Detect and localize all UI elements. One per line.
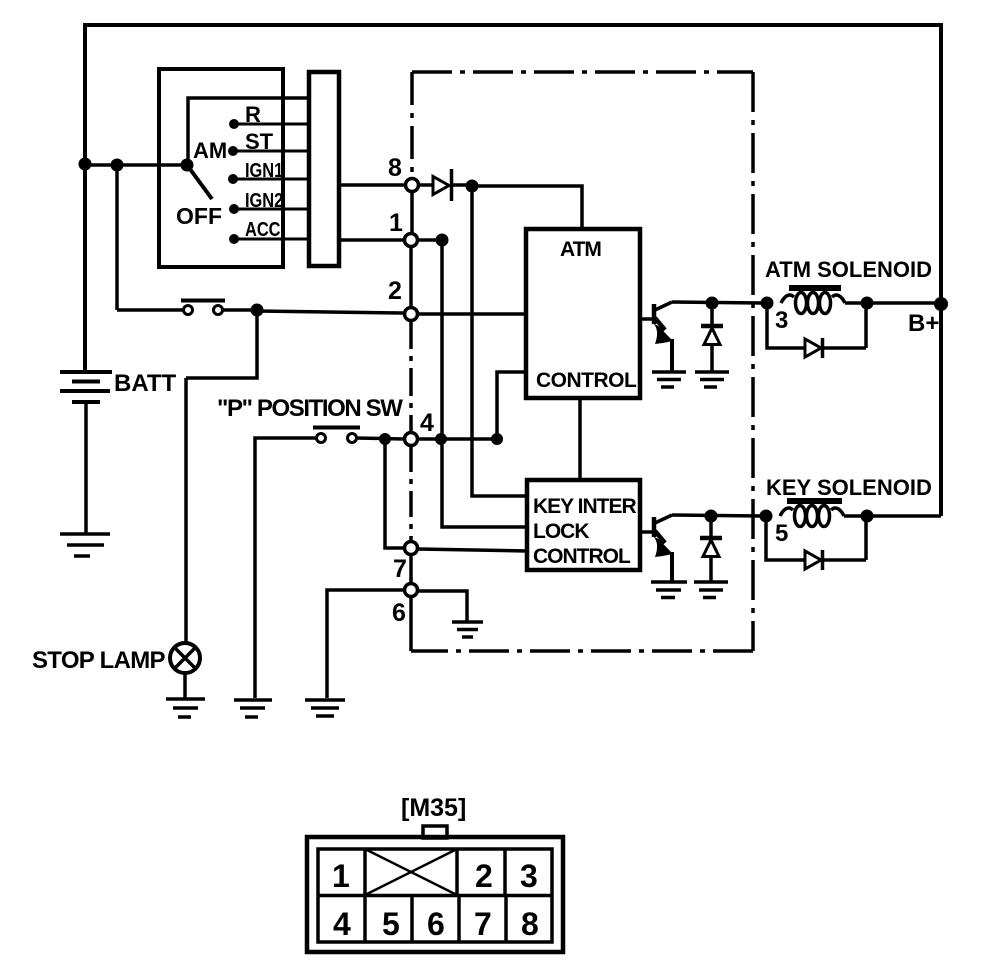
wire coil to B+ bbox=[845, 301, 941, 305]
svg-text:STOP LAMP: STOP LAMP bbox=[32, 647, 166, 674]
ground battery bbox=[60, 534, 110, 556]
ground stop lamp bbox=[166, 699, 205, 717]
ground Q2 emitter bbox=[651, 582, 687, 598]
wire Q2 base bbox=[640, 530, 653, 534]
svg-text:OFF: OFF bbox=[176, 203, 222, 229]
M35 dash-dot box right bbox=[751, 72, 755, 651]
key interlock control unit box bbox=[527, 480, 640, 570]
node junction after diode bbox=[466, 180, 479, 193]
svg-text:ATM: ATM bbox=[560, 238, 601, 261]
wire battery to ground bbox=[84, 402, 88, 533]
svg-text:5: 5 bbox=[775, 520, 788, 547]
wire connector to node 8 bbox=[339, 183, 404, 187]
wire node 8 to node 1 bbox=[410, 192, 414, 234]
node junction P switch branch bbox=[379, 433, 391, 445]
node junction solenoid 5 left bbox=[760, 510, 773, 523]
svg-text:6: 6 bbox=[392, 599, 406, 627]
wire connector to node 1 bbox=[339, 238, 403, 242]
node junction node 4 crossing bbox=[435, 433, 447, 445]
wire P switch to node 4 bbox=[356, 438, 403, 439]
svg-text:ACC: ACC bbox=[245, 217, 280, 240]
wire coil 5 to B+ line bbox=[844, 514, 941, 518]
wire diode to ATM control top bbox=[472, 186, 582, 229]
svg-text:3: 3 bbox=[520, 858, 538, 894]
svg-text:KEY SOLENOID: KEY SOLENOID bbox=[766, 475, 932, 500]
contact R bbox=[229, 119, 239, 129]
ATM control unit box bbox=[526, 229, 640, 398]
M35 dash-dot box bottom bbox=[411, 649, 753, 653]
contact ACC bbox=[229, 234, 239, 244]
svg-text:B+: B+ bbox=[908, 310, 939, 337]
svg-text:"P" POSITION SW: "P" POSITION SW bbox=[217, 395, 403, 422]
wire branch down to battery switch bbox=[117, 165, 184, 310]
wire feed to ignition switch bbox=[85, 163, 186, 167]
connector M35 outer shell bbox=[307, 837, 563, 952]
wire branch to stop lamp bbox=[186, 310, 257, 642]
wire Q1 collector to ATM solenoid bbox=[672, 302, 762, 303]
wire dashed node 4 to node 7 bbox=[409, 446, 413, 542]
svg-text:CONTROL: CONTROL bbox=[536, 369, 637, 392]
svg-text:R: R bbox=[245, 102, 261, 127]
diode D1 node 8 bbox=[419, 169, 466, 201]
solenoid coil 5 key bbox=[780, 501, 844, 527]
wire node 1 to node 2 bbox=[409, 247, 413, 308]
ignition switch box bbox=[159, 69, 283, 267]
M35 connector dashed line above node 8 bbox=[410, 72, 414, 177]
node 6 bbox=[405, 584, 418, 597]
zener diode Z2 bbox=[700, 516, 722, 581]
svg-text:ATM SOLENOID: ATM SOLENOID bbox=[765, 257, 932, 282]
node junction solenoid 5 right bbox=[861, 510, 874, 523]
svg-text:CONTROL: CONTROL bbox=[533, 545, 631, 568]
connector block ignition bbox=[309, 72, 339, 266]
svg-text:KEY INTER: KEY INTER bbox=[533, 495, 636, 518]
ground Z1 bbox=[695, 372, 729, 387]
wire switch to node 2 bbox=[222, 310, 403, 313]
transistor Q1 ATM output bbox=[653, 302, 673, 371]
wire node 2 to ATM control bbox=[418, 312, 526, 316]
wire left border down to battery bbox=[83, 23, 87, 370]
battery BATT bbox=[60, 372, 112, 402]
transistor Q2 key output bbox=[653, 515, 673, 581]
svg-text:AM: AM bbox=[193, 138, 227, 163]
svg-text:3: 3 bbox=[775, 307, 788, 334]
svg-text:2: 2 bbox=[475, 858, 493, 894]
ignition switch lever pivot AM bbox=[181, 159, 194, 172]
svg-text:IGN1: IGN1 bbox=[245, 158, 283, 181]
svg-text:ST: ST bbox=[245, 129, 274, 154]
wire Q2 collector to key solenoid bbox=[672, 515, 762, 516]
contact ST bbox=[228, 146, 238, 156]
diode flyback ATM solenoid bbox=[767, 308, 866, 358]
lamp STOP LAMP bbox=[170, 643, 200, 673]
connector M35 inner grid bbox=[318, 849, 552, 942]
wire node 4 to ATM pin bbox=[418, 437, 497, 441]
zener diode Z1 bbox=[701, 303, 723, 371]
contact IGN2 bbox=[229, 204, 239, 214]
ground P switch bbox=[234, 700, 272, 717]
node 1 bbox=[405, 234, 418, 247]
wire diode branch to key interlock pin 1 bbox=[472, 186, 527, 496]
wire dashed node 2 to node 4 bbox=[409, 321, 413, 433]
node junction stop lamp branch bbox=[251, 304, 264, 317]
svg-text:4: 4 bbox=[420, 409, 434, 437]
svg-text:BATT: BATT bbox=[114, 370, 177, 397]
ground Q1 emitter bbox=[652, 372, 686, 387]
node junction feed branch bbox=[111, 159, 124, 172]
wire ATM base bbox=[640, 317, 653, 321]
svg-text:8: 8 bbox=[521, 906, 539, 942]
switch P position bbox=[313, 428, 360, 443]
wire branch down to node 7 bbox=[385, 439, 403, 548]
wire node 7 to node 6 bbox=[409, 555, 413, 584]
ground Z2 bbox=[694, 582, 728, 598]
wire right border down to key solenoid bbox=[939, 23, 943, 516]
svg-text:6: 6 bbox=[427, 906, 445, 942]
svg-text:4: 4 bbox=[333, 906, 351, 942]
svg-text:IGN2: IGN2 bbox=[245, 188, 283, 211]
svg-text:7: 7 bbox=[474, 906, 492, 942]
node junction solenoid 3 left bbox=[761, 297, 774, 310]
solenoid coil 3 ATM bbox=[781, 288, 845, 314]
ignition switch lever bbox=[187, 165, 212, 199]
svg-text:2: 2 bbox=[388, 277, 402, 305]
wire node 6 right to ground bbox=[418, 591, 467, 621]
ground node 6 left bbox=[305, 700, 345, 716]
wire top border B+ feed bbox=[83, 23, 941, 27]
svg-text:5: 5 bbox=[382, 906, 400, 942]
svg-text:7: 7 bbox=[393, 555, 407, 583]
wire node 1 to key interlock pin 2 bbox=[418, 240, 527, 527]
svg-text:8: 8 bbox=[388, 154, 402, 182]
node junction ATM pin corner bbox=[491, 433, 503, 445]
connector M35 keying cross bbox=[365, 849, 457, 895]
M35 dash-dot box top bbox=[412, 70, 753, 74]
wire node 7 to key interlock bbox=[418, 549, 527, 551]
connector M35 tab bbox=[423, 826, 447, 838]
node junction on left border bbox=[79, 158, 92, 171]
wire ATM lower pin bbox=[497, 372, 526, 439]
node junction zener Z1 bbox=[706, 297, 719, 310]
wire lamp to ground bbox=[183, 673, 187, 698]
node 4 bbox=[405, 433, 418, 446]
node junction B+ bbox=[934, 297, 948, 311]
wire ATM control to key interlock bbox=[578, 398, 582, 480]
svg-text:1: 1 bbox=[389, 209, 403, 237]
wire P switch left lead to ground bbox=[255, 438, 316, 698]
contact IGN1 bbox=[228, 174, 238, 184]
node junction right of node 1 bbox=[436, 234, 449, 247]
wire node 6 left to ground bbox=[327, 590, 403, 698]
switch battery feed (closed contact) bbox=[181, 301, 225, 315]
node 8 bbox=[406, 179, 419, 192]
svg-text:[M35]: [M35] bbox=[401, 794, 466, 822]
node junction solenoid 3 right bbox=[861, 297, 874, 310]
ignition switch inner frame bbox=[188, 98, 309, 165]
diode flyback key solenoid bbox=[766, 521, 866, 570]
node junction zener Z2 bbox=[705, 510, 718, 523]
wire node 6 down to box corner bbox=[409, 597, 413, 651]
svg-text:LOCK: LOCK bbox=[533, 520, 589, 543]
node 2 bbox=[405, 308, 418, 321]
svg-text:1: 1 bbox=[332, 858, 350, 894]
node 7 bbox=[405, 542, 418, 555]
ground node 6 right bbox=[452, 622, 483, 637]
